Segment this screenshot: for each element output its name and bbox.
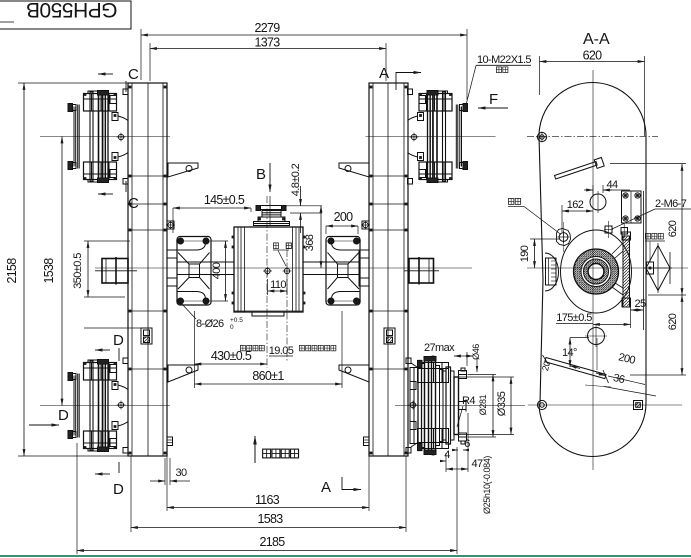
svg-text:27max: 27max xyxy=(424,342,455,354)
svg-text:Ø25h10(-0.084): Ø25h10(-0.084) xyxy=(482,456,492,514)
shaft right xyxy=(303,262,359,275)
bracket rail-right bottom xyxy=(339,365,369,382)
svg-text:Ø281: Ø281 xyxy=(478,394,488,415)
svg-text:1163: 1163 xyxy=(255,493,280,507)
dim 368 xyxy=(304,206,321,268)
svg-text:8-Ø26: 8-Ø26 xyxy=(196,318,224,330)
svg-text:D: D xyxy=(58,407,69,424)
lower bolts centerline xyxy=(528,404,682,406)
svg-text:A: A xyxy=(379,65,389,82)
drain plug slanted xyxy=(540,338,656,396)
dim 860 xyxy=(195,311,343,388)
rail left xyxy=(128,83,167,456)
svg-text:2279: 2279 xyxy=(254,21,280,35)
label 8-phi26 xyxy=(181,303,243,331)
label 2-M6-7H xyxy=(612,198,691,229)
dims bottom-right wheel xyxy=(424,342,514,514)
dim 200 top-right xyxy=(326,210,358,234)
svg-text:10-M22X1.5: 10-M22X1.5 xyxy=(477,54,531,66)
extension lines bottom dims xyxy=(18,83,457,554)
coupling left xyxy=(176,237,211,306)
dim 1373 xyxy=(150,36,386,82)
target mark top-left xyxy=(117,133,126,142)
label luosai xyxy=(508,198,561,234)
left boss bearing xyxy=(545,253,559,291)
dim 1163 xyxy=(167,493,369,508)
svg-text:860±1: 860±1 xyxy=(252,369,284,383)
capsule vertical centerline xyxy=(592,70,594,470)
svg-text:1373: 1373 xyxy=(254,36,280,50)
svg-text:350±0.5: 350±0.5 xyxy=(72,253,84,289)
wheel assembly bottom-left xyxy=(40,358,170,453)
dim 190 xyxy=(519,239,560,268)
gearbox top tower xyxy=(254,196,290,226)
svg-text:25: 25 xyxy=(634,298,646,310)
dim 175 xyxy=(556,307,631,328)
dim 620 right lower xyxy=(630,295,686,375)
svg-text:0: 0 xyxy=(230,324,234,331)
dim 350 xyxy=(72,241,130,297)
bracket rail-left bottom xyxy=(168,365,198,382)
dim 620 right upper xyxy=(610,164,686,296)
svg-text:+0.5: +0.5 xyxy=(230,317,243,324)
label A top xyxy=(379,65,421,90)
svg-text:200: 200 xyxy=(334,210,354,224)
label chassis center xyxy=(240,345,335,357)
top bolt centerline xyxy=(527,135,658,137)
label D top xyxy=(95,332,124,361)
gear horizontal centerline xyxy=(527,267,688,269)
svg-text:A: A xyxy=(321,479,331,496)
gear ring hatched xyxy=(574,249,619,294)
svg-text:2158: 2158 xyxy=(5,258,19,284)
svg-text:145±0.5: 145±0.5 xyxy=(204,193,245,207)
label A bottom xyxy=(321,477,361,496)
axle box left xyxy=(95,257,137,285)
wheel assembly bottom-right (with flange) xyxy=(395,356,525,456)
target mark bottom-left xyxy=(117,401,126,410)
axle centerline xyxy=(95,267,472,269)
label 10-M22X1.5 xyxy=(466,54,531,105)
target mark bottom-right xyxy=(409,401,418,410)
vent plug bolt left xyxy=(263,267,272,276)
svg-text:1583: 1583 xyxy=(257,512,283,526)
dim 145 xyxy=(173,193,251,233)
label F xyxy=(478,91,508,108)
svg-text:GPH550B: GPH550B xyxy=(26,0,117,21)
bracket rail-left top xyxy=(168,163,198,177)
handle top xyxy=(555,157,605,179)
dim 2158 xyxy=(5,83,24,456)
dim 25 xyxy=(631,298,646,310)
svg-text:368: 368 xyxy=(304,234,316,251)
bolt capsule top-left xyxy=(537,132,548,143)
dim 1583 xyxy=(131,512,406,528)
svg-text:400: 400 xyxy=(211,262,223,279)
bottom teal rule xyxy=(0,555,691,557)
svg-text:R4: R4 xyxy=(462,395,475,407)
pad rail-right xyxy=(361,221,370,230)
2-M6 bolts xyxy=(604,221,628,238)
wheel assembly top-right xyxy=(366,89,496,184)
gear housing circle xyxy=(561,230,632,313)
bolt capsule bottom-right xyxy=(634,401,643,410)
svg-text:2185: 2185 xyxy=(259,535,285,549)
svg-text:6: 6 xyxy=(464,438,470,450)
dim 44 xyxy=(584,179,630,196)
label C bottom xyxy=(98,181,139,212)
dim 430 xyxy=(195,311,268,388)
svg-text:D: D xyxy=(113,481,124,498)
sensor block rail-left xyxy=(84,328,152,344)
svg-text:620: 620 xyxy=(583,49,603,63)
dim 2279 xyxy=(141,21,467,100)
bearing block left xyxy=(167,250,177,286)
svg-text:620: 620 xyxy=(667,220,679,237)
svg-text:B: B xyxy=(256,166,266,183)
svg-text:44: 44 xyxy=(606,179,618,191)
svg-text:190: 190 xyxy=(519,245,531,262)
svg-text:620: 620 xyxy=(667,313,679,330)
dim 30 xyxy=(150,458,190,485)
section plate right xyxy=(612,232,631,307)
axle box right xyxy=(404,257,439,285)
svg-text:14°: 14° xyxy=(562,347,577,359)
wheel assembly top-left xyxy=(40,89,170,184)
vent plug right label xyxy=(645,233,665,262)
shaft left xyxy=(177,262,234,275)
dim 162 xyxy=(562,199,593,232)
bolt capsule bottom-left xyxy=(537,400,546,409)
svg-text:D: D xyxy=(113,332,124,349)
dim 4.8 xyxy=(286,163,322,233)
label D bottom xyxy=(95,462,124,498)
bracket rail-right top xyxy=(339,163,369,177)
tab rail-right inner xyxy=(364,437,370,446)
svg-text:A-A: A-A xyxy=(583,31,610,48)
label C top xyxy=(98,66,139,92)
vent detail tent xyxy=(644,243,672,293)
vent label gearbox xyxy=(273,243,291,266)
svg-text:C: C xyxy=(128,195,139,212)
hole 44 xyxy=(590,191,606,213)
gearbox centerline flange xyxy=(286,250,288,362)
svg-text:4.8±0.2: 4.8±0.2 xyxy=(290,163,302,196)
svg-text:F: F xyxy=(489,91,498,108)
dim 400 xyxy=(211,241,228,301)
sensor block rail-right xyxy=(384,328,395,344)
pad rail-left xyxy=(166,221,175,230)
svg-text:162: 162 xyxy=(567,199,584,211)
tab rail-left inner xyxy=(167,437,173,446)
svg-text:175±0.5: 175±0.5 xyxy=(556,312,592,324)
label forward direction xyxy=(255,436,299,463)
hole lower xyxy=(585,325,607,347)
svg-text:Ø46: Ø46 xyxy=(471,344,481,360)
svg-text:1538: 1538 xyxy=(42,258,56,284)
screw plug xyxy=(557,222,571,252)
label B xyxy=(256,163,270,192)
coupling right xyxy=(326,237,361,306)
svg-text:110: 110 xyxy=(270,279,286,291)
target mark top-right xyxy=(410,133,419,142)
gearbox centerline chassis xyxy=(266,196,268,368)
rail right xyxy=(369,83,408,456)
svg-text:19.05: 19.05 xyxy=(269,345,294,357)
dim 1538 xyxy=(42,137,62,406)
dim 620 top xyxy=(540,49,645,137)
svg-text:430±0.5: 430±0.5 xyxy=(211,349,252,363)
capsule housing outline xyxy=(539,83,646,457)
label D left xyxy=(29,407,69,425)
dim 110 xyxy=(268,279,288,295)
mount pad top-right xyxy=(622,191,642,223)
bearing block right xyxy=(359,250,369,286)
vent plug bolt right xyxy=(283,267,292,276)
gearbox xyxy=(232,227,306,316)
svg-text:C: C xyxy=(128,66,139,83)
svg-text:30: 30 xyxy=(175,467,187,479)
dim 2185 xyxy=(77,535,457,551)
svg-text:Ø335: Ø335 xyxy=(496,391,508,416)
svg-text:4: 4 xyxy=(444,449,450,461)
title block xyxy=(0,0,131,29)
